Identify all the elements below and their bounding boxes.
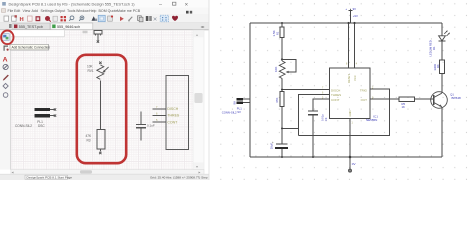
svg-text:R3: R3 <box>87 138 91 142</box>
wire branch to THRES <box>282 127 298 129</box>
svg-text:▴: ▴ <box>196 32 198 37</box>
wire R3 to C1 <box>281 107 283 145</box>
svg-text:DesignSpark PCB 8.1 used by RS: DesignSpark PCB 8.1 used by RS - (Schema… <box>9 2 136 7</box>
svg-text:Tools: Tools <box>67 9 76 13</box>
svg-text:DesignSpark PCB 8.1 Start Page: DesignSpark PCB 8.1 Start Page <box>27 175 73 179</box>
wire collector <box>441 74 443 94</box>
svg-text:Make me PCB: Make me PCB <box>117 9 141 13</box>
junction C1 at ground rail <box>281 156 283 158</box>
svg-text:–: – <box>159 2 162 8</box>
junction THRES node <box>281 127 283 129</box>
svg-text:OUT: OUT <box>361 98 368 102</box>
wire bottom rail <box>250 156 442 158</box>
junction VCC pin at rail <box>348 22 350 24</box>
wire left rail upper <box>249 23 251 157</box>
svg-text:◂: ◂ <box>12 170 14 175</box>
white strip top-left of canvas <box>11 30 65 37</box>
svg-text:+: + <box>272 141 274 145</box>
tab bar <box>0 23 209 30</box>
LED D1 <box>439 31 450 60</box>
wire top rail <box>250 22 442 24</box>
svg-text:47K: 47K <box>275 98 279 103</box>
svg-text:▾: ▾ <box>196 164 198 169</box>
svg-text:555_TEST.pcb: 555_TEST.pcb <box>19 25 43 29</box>
svg-text:CONT: CONT <box>331 98 340 102</box>
svg-text:0.1uF: 0.1uF <box>147 124 155 128</box>
wire TRIG loop <box>298 89 389 136</box>
svg-text:R1: R1 <box>275 31 279 35</box>
battery PL1 <box>237 98 250 104</box>
svg-text:10K: 10K <box>274 67 278 72</box>
svg-text:C3: C3 <box>324 117 328 121</box>
svg-text:Add: Add <box>32 9 38 13</box>
menu bar <box>0 8 209 14</box>
svg-text:D1: D1 <box>432 46 436 50</box>
red annotation rounded rect <box>77 55 126 163</box>
svg-text:DSC: DSC <box>38 124 45 128</box>
transistor Q1 <box>431 92 448 109</box>
potentiometer RV1 <box>279 58 296 78</box>
svg-text:R4: R4 <box>436 64 440 68</box>
left tool column <box>0 30 11 169</box>
ground 0V symbol <box>349 157 352 172</box>
svg-text:▸: ▸ <box>199 170 201 175</box>
wire R5 to base <box>415 98 434 100</box>
svg-text:Add Schematic Connection: Add Schematic Connection <box>12 45 51 49</box>
svg-text:✕: ✕ <box>185 2 189 7</box>
svg-text:DISCH: DISCH <box>167 107 178 111</box>
svg-text:+9V: +9V <box>353 14 358 18</box>
red annotation circle around left tool icon <box>1 31 13 45</box>
svg-text:DISCH: DISCH <box>331 88 340 92</box>
svg-text:555_9646.sch: 555_9646.sch <box>57 25 80 29</box>
svg-text:◂▸: ◂▸ <box>201 24 205 29</box>
svg-text:VCC: VCC <box>353 75 357 81</box>
svg-text:File: File <box>8 9 14 13</box>
IC 555 box (canvas) <box>153 75 189 149</box>
svg-text:0V: 0V <box>352 162 356 166</box>
svg-text:CONN-SIL2: CONN-SIL2 <box>222 111 237 115</box>
svg-text:GND: GND <box>348 110 352 116</box>
svg-text:THRES: THRES <box>167 114 180 118</box>
pin VCC top <box>348 23 350 68</box>
connector symbol top (canvas) <box>94 30 102 42</box>
toolbar <box>0 14 209 23</box>
horizontal scrollbar <box>11 170 204 175</box>
svg-text:RESET: RESET <box>347 74 351 83</box>
junction C3 at ground rail <box>312 156 314 158</box>
svg-text:CONT: CONT <box>167 120 178 124</box>
svg-text:NE555N: NE555N <box>366 118 377 122</box>
power +9V symbol <box>349 9 353 23</box>
pin RESET top <box>354 23 356 68</box>
svg-text:BOM Quote: BOM Quote <box>99 9 118 13</box>
gray dot grid <box>212 0 474 180</box>
resistor R1 <box>280 27 284 38</box>
wire emitter <box>441 107 443 157</box>
svg-text:1K: 1K <box>402 105 406 109</box>
svg-text:H: H <box>20 17 24 23</box>
vertical scrollbar <box>193 30 204 169</box>
connector PL1 (canvas) <box>34 108 56 118</box>
junction GND at ground rail <box>349 156 352 159</box>
svg-text:Grid: 25.40 Abs: (1588 +/- 25: Grid: 25.40 Abs: (1588 +/- 25908.77) Ste… <box>150 175 208 179</box>
tooltip "Add Schematic Connection" <box>10 44 50 50</box>
svg-text:Help: Help <box>89 9 96 13</box>
svg-text:✕: ✕ <box>153 17 158 23</box>
svg-text:Edit: Edit <box>14 9 20 13</box>
wire OUT to R5 <box>370 98 399 100</box>
canvas with pink grid <box>11 30 193 169</box>
page background <box>0 0 474 180</box>
junction RESET pin at rail <box>353 22 355 24</box>
svg-text:0.01u: 0.01u <box>321 114 325 121</box>
wire DISCH <box>282 89 330 91</box>
resistor R3 <box>280 92 284 107</box>
wire THRES <box>298 95 329 136</box>
status bar <box>0 174 209 180</box>
resistor R3 (canvas) <box>97 129 105 154</box>
svg-text:9V: 9V <box>232 101 236 105</box>
svg-text:CONN-SIL2: CONN-SIL2 <box>15 124 32 128</box>
junction DISCH node <box>281 89 283 91</box>
svg-text:View: View <box>23 9 31 13</box>
capacitor C3 <box>308 111 318 157</box>
IC1 NE555 box <box>330 68 371 119</box>
wire rail to R1 <box>281 23 283 27</box>
svg-text:9V: 9V <box>353 7 357 11</box>
MDI child buttons <box>186 11 189 14</box>
window right border <box>208 0 210 180</box>
potentiometer RV1 (canvas) <box>97 62 109 80</box>
svg-text:A: A <box>3 56 8 63</box>
wire pot to R3 <box>281 79 283 92</box>
title bar <box>0 0 209 8</box>
svg-text:Window: Window <box>76 9 89 13</box>
svg-text:BC548: BC548 <box>452 96 462 100</box>
svg-text:TRIG: TRIG <box>360 88 368 92</box>
svg-text:+: + <box>345 7 347 11</box>
capacitor C1 <box>275 144 288 157</box>
svg-text:RV1: RV1 <box>88 69 94 73</box>
wire CONT to C3 <box>313 99 330 111</box>
svg-text:9V: 9V <box>237 110 241 114</box>
left column icons <box>2 34 9 98</box>
toolbar icons <box>4 15 178 23</box>
resistor R4 <box>439 60 444 74</box>
wire pot to R3 (canvas) <box>99 80 101 129</box>
capacitor (canvas) <box>136 112 146 141</box>
wire rail to LED <box>441 23 443 36</box>
svg-text:THRES: THRES <box>331 93 341 97</box>
svg-text:Output: Output <box>55 9 66 13</box>
wire R1 to pot <box>281 38 283 62</box>
svg-text:Settings: Settings <box>41 9 54 13</box>
junction R1 top rail <box>281 22 283 24</box>
resistor R5 <box>399 97 414 101</box>
pin GND wire <box>349 118 351 157</box>
